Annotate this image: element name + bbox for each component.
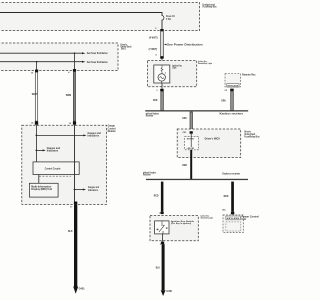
driver's under-dash box (dashed): [0, 43, 132, 71]
wire: branch arrow 2 (gauges and indicators): [36, 147, 61, 153]
wire: control circuits to MID unit: [38, 175, 40, 184]
svg-text:Light: Light: [172, 67, 176, 70]
svg-text:GRN: GRN: [182, 117, 187, 120]
svg-text:Indicators: Indicators: [88, 135, 100, 138]
connector: under-dash exit left: [31, 70, 39, 75]
svg-text:KEYLESS: KEYLESS: [228, 85, 239, 87]
svg-text:See Power Distribution: See Power Distribution: [87, 61, 108, 64]
svg-text:7.5A: 7.5A: [166, 17, 171, 21]
wire: fuse output down to box edge: [155, 20, 162, 30]
svg-text:Receiver: Receiver: [146, 115, 154, 118]
svg-text:G408: G408: [166, 290, 172, 293]
wire BRN (second column): [66, 72, 76, 122]
connector below striped wire: [155, 53, 163, 65]
svg-text:Driver's MICU: Driver's MICU: [205, 138, 221, 141]
svg-text:Display (MID) Unit: Display (MID) Unit: [31, 188, 52, 191]
connector: key switch entry pin 1: [159, 212, 164, 215]
connector: remote receiver exit C5: [225, 89, 234, 93]
wire: BRN column inside gauge box: [74, 125, 76, 202]
svg-text:RED: RED: [154, 195, 159, 198]
wire: bus 1 in under-dash box: [0, 52, 108, 55]
svg-text:Fuse/Relay Box: Fuse/Relay Box: [203, 4, 217, 8]
fuse F10 7.5A: [161, 14, 175, 21]
connector at under-hood box exit: [160, 29, 164, 31]
ignition key light bulb box: [154, 65, 170, 83]
svg-text:Switch/Key Light: Switch/Key Light: [198, 62, 212, 65]
connector: gauge module entry right: [69, 121, 77, 125]
svg-text:See Power Distribution: See Power Distribution: [87, 52, 108, 55]
svg-text:KEYLESS: KEYLESS: [227, 218, 240, 220]
under-hood fuse/relay box (dashed): [0, 2, 217, 30]
svg-text:BLK: BLK: [156, 267, 160, 270]
ignition key switch symbol box: [155, 221, 169, 234]
wire: branch arrow 3 (gauges and indicators): [74, 186, 100, 192]
ground G408: [161, 290, 173, 296]
svg-text:RED: RED: [182, 164, 187, 167]
wire RED (MICU output down): [182, 150, 192, 179]
connector: power control unit entry C14: [222, 209, 234, 215]
svg-text:BLK: BLK: [68, 230, 73, 233]
wire: WHT column inside gauge box: [35, 125, 37, 162]
wire GRN (key light down): [153, 91, 164, 110]
connector: gauge module entry left: [31, 121, 38, 124]
wire: branch to gauges and indicators (top): [36, 132, 102, 138]
svg-text:Keyless receiver: Keyless receiver: [222, 173, 240, 176]
wire WHT/BLU striped segment (middle column): [149, 31, 164, 56]
wire BLK to ground (left): [68, 205, 77, 287]
ground G401: [73, 287, 85, 294]
svg-text:WHT: WHT: [32, 93, 38, 96]
svg-text:RED: RED: [224, 195, 229, 198]
svg-text:(7 WHT): (7 WHT): [149, 48, 158, 51]
svg-text:Box 1: Box 1: [121, 48, 127, 51]
gauge control module (dashed box): [22, 124, 116, 205]
ignition key light assembly (dashed box): [148, 60, 213, 87]
svg-text:See Power Distribution: See Power Distribution: [167, 43, 203, 47]
svg-text:Indicators: Indicators: [88, 189, 99, 192]
control circuits box: [33, 162, 79, 175]
wire BLK to ground (middle): [156, 244, 165, 290]
svg-text:GRN: GRN: [153, 99, 158, 102]
wire RED (to ignition key switch): [154, 182, 164, 212]
section rule 2: [143, 171, 248, 180]
svg-text:(4 WHT): (4 WHT): [149, 36, 158, 39]
connector: under-dash exit right: [68, 69, 76, 74]
svg-text:G401: G401: [79, 287, 86, 290]
wire: drop from bus 1 at x=74.5: [74, 52, 76, 69]
power control unit (dashed box): [223, 215, 259, 233]
wire WHT (left column): [32, 72, 38, 121]
svg-text:Indicators: Indicators: [47, 150, 59, 153]
svg-text:Module: Module: [108, 129, 116, 133]
section rule 1: [145, 110, 248, 117]
svg-text:BRN: BRN: [66, 94, 72, 97]
svg-text:Keyless receiver: Keyless receiver: [220, 113, 244, 116]
driver's under-dash fuse/relay box (dashed, MICU): [177, 129, 260, 158]
ignition key switch assembly (dashed box): [150, 215, 213, 241]
multi-information display (MID) unit box: [29, 183, 58, 197]
wire GRN (into driver's MICU): [182, 112, 192, 132]
connector: MICU entry C4 1: [183, 131, 193, 134]
connector: key switch exit pin 2: [160, 234, 164, 246]
svg-text:KEY IN: KEY IN: [187, 138, 194, 140]
svg-text:Control Circuits: Control Circuits: [45, 166, 61, 170]
wire RED (to power control unit): [224, 182, 234, 212]
wire: hot feed bus inside under-hood box: [0, 13, 162, 16]
wire: bus 2 in under-dash box: [0, 61, 108, 64]
arrow: see power distribution (middle wire tap): [164, 43, 203, 47]
wire: drop from bus 2 at x=36.6: [36, 61, 38, 70]
svg-text:Remote Rec: Remote Rec: [242, 74, 256, 77]
connector: gauge module ground exit: [70, 202, 77, 209]
connector: key light box exit: [160, 89, 164, 92]
wire: bulb to box exit: [156, 83, 162, 92]
svg-text:(On: Key in Ignition): (On: Key in Ignition): [171, 222, 191, 225]
svg-text:GRN: GRN: [221, 99, 226, 102]
keyless remote receiver box (dashed): [225, 74, 256, 88]
driver's MICU inner dashed box: [185, 134, 221, 150]
wire GRN (remote receiver down): [221, 91, 233, 110]
svg-text:Unit: Unit: [242, 218, 247, 221]
svg-text:Switch/Key Light: Switch/Key Light: [201, 217, 214, 220]
svg-text:Fuse/Relay Box: Fuse/Relay Box: [244, 135, 260, 138]
svg-text:Receiver: Receiver: [143, 174, 151, 177]
dashed partition under control circuits: [39, 175, 71, 177]
